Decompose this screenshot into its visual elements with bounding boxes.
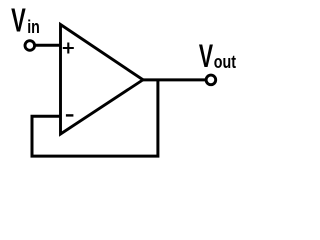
plus input symbol	[63, 43, 74, 54]
wire - input feedback loop	[32, 80, 158, 156]
svg-text:in: in	[27, 16, 40, 37]
node Vin label	[11, 2, 40, 39]
terminal Vin	[25, 41, 35, 51]
node Vout label	[199, 38, 237, 75]
minus input symbol	[66, 114, 74, 116]
op-amp U1	[61, 25, 144, 135]
wire Vin to + input	[35, 44, 63, 47]
svg-text:V: V	[199, 38, 213, 75]
wire output	[141, 78, 206, 81]
svg-text:V: V	[11, 2, 26, 39]
svg-text:out: out	[214, 52, 237, 72]
terminal Vout	[206, 75, 216, 85]
